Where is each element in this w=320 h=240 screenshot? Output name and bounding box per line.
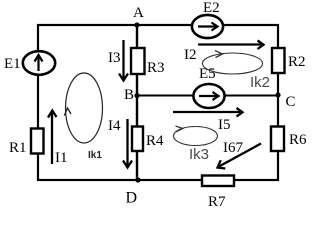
source E1 (23, 51, 55, 75)
svg-text:I4: I4 (108, 118, 121, 134)
svg-text:R2: R2 (288, 54, 306, 70)
source E5 (193, 84, 224, 108)
node C (275, 92, 280, 97)
current arrow I3 (119, 40, 128, 81)
svg-text:R3: R3 (147, 60, 165, 76)
wire outer loop A-top-right-bottom-left (38, 25, 278, 180)
svg-text:E2: E2 (203, 0, 220, 16)
current arrow I5 (173, 108, 243, 117)
current arrow I1 (48, 111, 57, 165)
node B (134, 93, 139, 98)
svg-text:D: D (126, 190, 138, 207)
svg-text:I3: I3 (108, 50, 121, 66)
node A (134, 22, 139, 27)
resistor R2 (272, 48, 285, 73)
svg-text:R1: R1 (9, 140, 27, 156)
wire B-C (137, 95, 278, 97)
svg-text:E1: E1 (4, 56, 21, 72)
svg-text:I2: I2 (184, 47, 197, 63)
resistor R7 (202, 176, 234, 187)
current arrow I4 (123, 119, 132, 168)
svg-text:Ik1: Ik1 (88, 150, 102, 161)
source E2 (192, 15, 223, 38)
resistor R4 (132, 127, 143, 152)
node D (135, 177, 140, 182)
resistor R6 (271, 127, 284, 152)
resistor R1 (31, 129, 44, 154)
svg-text:I1: I1 (55, 150, 68, 166)
loop Ik1 (64, 73, 102, 143)
svg-text:R4: R4 (146, 133, 164, 149)
svg-text:C: C (286, 94, 296, 110)
wire middle branch A-D (136, 25, 138, 180)
svg-text:Ik2: Ik2 (250, 74, 270, 91)
svg-text:R7: R7 (208, 194, 226, 207)
svg-text:Ik3: Ik3 (189, 146, 209, 163)
svg-text:I67: I67 (223, 140, 243, 156)
loop Ik2 (203, 51, 263, 75)
current arrow I67 (218, 144, 262, 169)
loop Ik3 (174, 126, 218, 146)
resistor R3 (131, 48, 145, 74)
svg-text:A: A (133, 5, 144, 21)
svg-text:I5: I5 (218, 117, 231, 133)
svg-text:E5: E5 (199, 66, 216, 82)
svg-text:R6: R6 (289, 132, 307, 148)
current arrow I2 (198, 41, 264, 50)
svg-text:B: B (124, 87, 134, 103)
